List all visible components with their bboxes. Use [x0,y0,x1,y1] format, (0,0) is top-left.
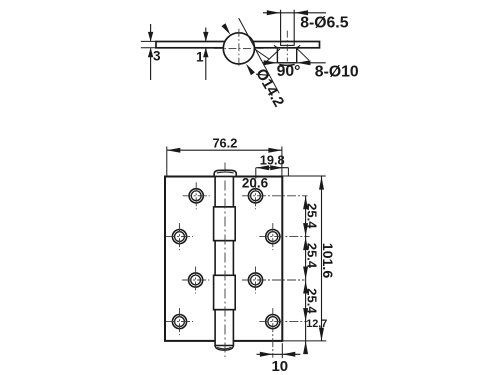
arrowhead down at row4 [303,308,308,321]
svg-text:25.4: 25.4 [305,243,320,269]
arrowheads 76.2 [167,148,282,153]
arrowhead bottom 101.6 [319,328,324,341]
svg-text:8-Ø6.5: 8-Ø6.5 [300,15,349,32]
arrowheads 8-dia6.5 [267,10,308,15]
pin cap top inner rim [217,171,234,174]
countersink box right edge [296,48,298,63]
cone edge extension far left [254,49,269,60]
hole centerline [286,31,288,62]
arrowheads dim 1 [203,32,208,57]
knuckle 3 [215,241,233,276]
hole R2 [266,230,280,244]
arrowhead left of 90deg [264,60,278,65]
dimension line 76.2 [167,149,282,151]
top extension line for 101.6 [282,175,326,177]
hole L3 [189,273,203,287]
arrowheads at row2 [303,223,308,250]
dimension line 90deg / 8-dia10 [262,62,325,64]
dimension line 10 [257,353,301,355]
hole L1 [189,189,203,203]
svg-text:76.2: 76.2 [212,136,237,151]
arrowhead upper of dia 14.2 [222,23,231,35]
svg-text:25.4: 25.4 [305,288,320,314]
pin cap top [214,170,236,176]
knuckle circle [223,33,254,64]
hole extension lines (8-dia6.5) [281,10,295,46]
chain dimension line 25.4/12.7 [305,196,307,354]
knuckle 2 [214,207,236,241]
leaf bar (side view) [156,42,320,48]
pointer line 20.6 [255,168,257,179]
arrowhead up at row1 [303,196,308,209]
extension lines for dim 3 [141,41,156,47]
extension stub 19.8 right [287,168,289,176]
cone edge extension left [266,49,280,63]
hinge plate outline [165,177,282,341]
arrowheads at row3 [303,267,308,294]
hole bottom connector [281,44,295,46]
hole L2 [172,230,186,244]
bottom extension line for 101.6 [282,340,326,342]
arrowheads 10 [260,352,295,357]
arrowheads dim 3 [148,32,153,57]
svg-text:1: 1 [196,50,204,65]
crosshair R1 (extends right for 25.4 dim) [242,182,308,209]
centerline vertical of knuckle [238,29,240,68]
cone edge extension right [297,48,309,60]
countersink box left edge [276,48,278,63]
arrowhead up at plate bottom (12.7) [303,341,308,354]
centerline horizontal of knuckle [214,47,264,49]
crosshair L2 [166,223,193,250]
dimension line 101.6 [321,176,323,341]
svg-text:19.8: 19.8 [260,152,285,167]
svg-text:25.4: 25.4 [305,203,320,229]
crosshair L4 [166,308,193,335]
svg-text:12,7: 12,7 [306,318,327,330]
arrowhead top 101.6 [319,177,324,190]
barrel centerline [224,163,226,358]
extension lines 76.2 [167,147,282,177]
countersink bottom arc [279,63,294,66]
dimension line 3 [150,24,152,80]
crosshair R2 (extends right) [259,223,309,250]
dimension line 8-dia6.5 [263,12,326,14]
chamfer line left [274,45,278,48]
arrowhead lower of dia 14.2 [246,64,255,76]
svg-text:8-Ø10: 8-Ø10 [315,63,359,80]
crosshair R4 (extends right and down for 10 dim) [259,308,307,358]
dimension line 19.8 [256,167,288,169]
crosshair R3 (extends right) [242,267,305,294]
svg-text:3: 3 [153,49,161,64]
hole R1 [248,189,262,203]
svg-text:90°: 90° [277,63,301,80]
extension line 10 right [281,343,283,358]
knuckle 5 [215,310,233,346]
svg-text:20.6: 20.6 [242,176,269,191]
crosshair L3 [182,267,209,294]
chamfer line right [296,45,300,48]
countersink box bottom [277,62,296,64]
pin cap bottom inner dish [217,347,231,349]
knuckle 4 [214,275,236,309]
crosshair L1 [183,182,210,209]
leader line dia 14.2 [239,18,280,93]
hole R3 [248,273,262,287]
arrowheads 19.8 [256,165,283,170]
hole L4 [172,315,186,329]
knuckle 1 [215,177,233,207]
dimension line 1 [205,28,207,81]
svg-text:10: 10 [271,358,288,375]
svg-text:101.6: 101.6 [319,243,335,279]
hole R4 [266,315,280,329]
arrowhead right of 90deg [297,60,311,65]
pin cap bottom [215,346,233,351]
